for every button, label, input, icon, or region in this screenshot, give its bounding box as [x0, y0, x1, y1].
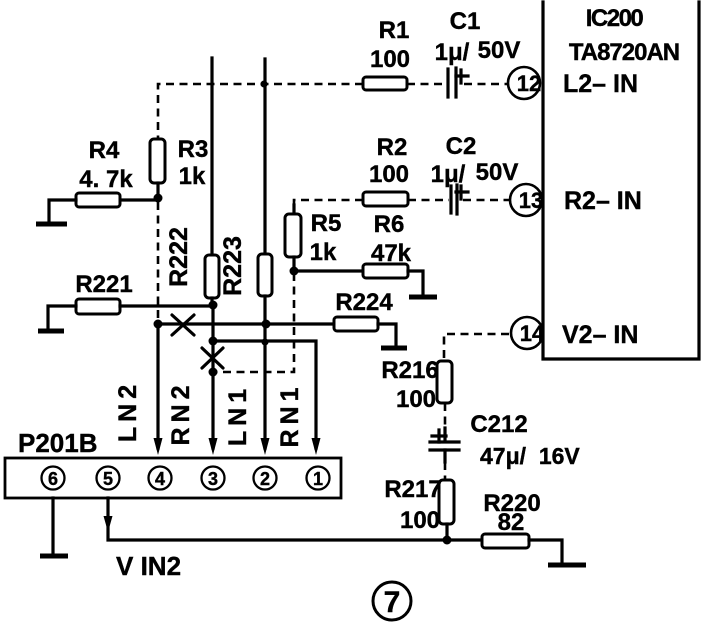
svg-text:4: 4 — [155, 469, 165, 489]
node LN1 crossing — [262, 320, 271, 329]
svg-text:100: 100 — [396, 386, 436, 413]
resistor R222 — [205, 255, 219, 298]
svg-text:1μ/: 1μ/ — [431, 161, 466, 188]
svg-text:1: 1 — [313, 469, 323, 489]
svg-text:R221: R221 — [75, 271, 132, 298]
jumper X1 — [172, 315, 194, 335]
pin 4 — [149, 467, 172, 490]
node dashed branch — [209, 368, 218, 377]
node RN1 branch — [209, 337, 218, 346]
svg-text:R2– IN: R2– IN — [564, 187, 642, 215]
pin 1 — [307, 467, 330, 490]
wire dashed from R3 top to R1 left — [158, 84, 363, 139]
arrow pin4 — [154, 438, 163, 455]
svg-text:LN2: LN2 — [114, 380, 142, 442]
svg-text:14: 14 — [520, 321, 545, 346]
svg-text:L2– IN: L2– IN — [563, 70, 638, 98]
wire R3 bottom — [156, 183, 159, 199]
wire dashed junction down — [157, 202, 160, 322]
svg-text:V IN2: V IN2 — [116, 551, 181, 581]
wire R224 to ground — [378, 324, 396, 346]
IC IC200 TA8720AN box — [543, 2, 699, 359]
svg-text:LN1: LN1 — [224, 384, 252, 446]
svg-text:R3: R3 — [178, 136, 209, 163]
svg-text:V2– IN: V2– IN — [562, 321, 638, 349]
svg-text:47k: 47k — [371, 240, 412, 267]
wire RN2 vertical down to pin3 — [211, 305, 214, 448]
wire LN1 down to pin2 — [263, 296, 266, 448]
svg-text:100: 100 — [400, 507, 440, 534]
pin 5 — [97, 467, 120, 490]
ground R6 — [409, 295, 437, 300]
svg-text:R223: R223 — [219, 236, 247, 296]
resistor R3 — [150, 139, 165, 183]
wire junction to R6 — [294, 269, 363, 272]
pin 2 — [254, 467, 277, 490]
svg-text:R4: R4 — [89, 137, 120, 164]
svg-text:100: 100 — [370, 46, 410, 73]
resistor R224 — [334, 317, 378, 331]
svg-text:IC200: IC200 — [586, 5, 644, 32]
capacitor C212 — [430, 430, 459, 450]
svg-text:1k: 1k — [310, 239, 337, 266]
svg-text:1k: 1k — [179, 163, 206, 190]
wire R220 to ground — [529, 540, 562, 563]
node crossing small — [262, 339, 269, 346]
wire dashed pin14 to R216 — [444, 334, 509, 360]
wire pin5 V IN2 — [108, 498, 448, 540]
wire dashed R2 left to R5 top — [294, 200, 363, 207]
ground R220 — [548, 563, 586, 568]
svg-text:RN2: RN2 — [167, 380, 195, 445]
wire junction to R220 — [447, 538, 482, 541]
svg-text:1μ/: 1μ/ — [435, 39, 470, 66]
svg-text:R1: R1 — [379, 17, 410, 44]
arrow pin3 — [209, 438, 218, 455]
ground pin6 — [40, 554, 68, 559]
wire dashed R1 to C1 — [407, 83, 448, 86]
connector P201B box — [5, 458, 341, 498]
svg-text:R2: R2 — [377, 134, 408, 161]
svg-text:P201B: P201B — [18, 428, 98, 458]
node R222/R221 junction — [209, 301, 218, 310]
svg-text:13: 13 — [519, 188, 543, 213]
wire vertical LN1 upper — [210, 58, 213, 255]
wire LN2 down to pin4 — [156, 324, 159, 448]
node R5/R6 junction — [290, 267, 299, 276]
resistor R4 — [76, 193, 120, 207]
resistor R5 — [285, 214, 301, 257]
svg-text:R217: R217 — [384, 476, 441, 503]
wire branch to R224 — [158, 322, 334, 325]
wire R4 left to ground — [49, 200, 76, 222]
svg-text:50V: 50V — [476, 159, 519, 186]
wire pin6 to ground — [51, 498, 54, 553]
wire dashed C2 to pin13 — [463, 199, 510, 202]
wire R221 left to ground — [48, 306, 76, 329]
resistor R223 — [258, 254, 272, 296]
resistor R216 — [437, 361, 452, 403]
wire R6 to ground — [408, 271, 423, 295]
wire RN1 branch to pin1 — [213, 341, 316, 448]
resistor R2 — [363, 192, 408, 206]
capacitor C1 — [448, 68, 468, 97]
svg-text:47μ/ 16V: 47μ/ 16V — [480, 443, 580, 469]
jumper X2 — [202, 348, 223, 368]
wire dashed C1 to pin12 — [464, 83, 508, 86]
svg-text:TA8720AN: TA8720AN — [569, 39, 679, 66]
wire C212 to R217 — [443, 450, 446, 462]
node R217/VIN2 junction — [443, 536, 452, 545]
svg-text:5: 5 — [103, 469, 113, 489]
pin 12 — [508, 67, 541, 99]
wire R5 bottom to junction — [292, 257, 295, 271]
svg-text:R5: R5 — [311, 210, 342, 237]
wire R4 to junction — [120, 198, 158, 201]
svg-text:C2: C2 — [446, 133, 477, 160]
resistor R220 — [482, 534, 529, 548]
svg-text:R224: R224 — [335, 289, 393, 316]
svg-text:50V: 50V — [478, 37, 521, 64]
resistor R1 — [363, 77, 407, 90]
wire dashed R2 to C2 — [408, 199, 449, 202]
wire R217 bottom — [445, 524, 448, 541]
svg-text:4. 7k: 4. 7k — [79, 166, 133, 193]
svg-text:100: 100 — [369, 161, 409, 188]
pin 3 — [202, 467, 225, 490]
capacitor C2 — [451, 185, 468, 214]
node R3/R4 junction — [154, 194, 163, 203]
node LN2 branch — [154, 320, 163, 329]
wire R221 to RN2 node — [120, 304, 214, 307]
svg-text:RN1: RN1 — [276, 382, 304, 447]
arrow pin2 — [261, 438, 270, 455]
pin 13 — [510, 184, 543, 216]
resistor R6 — [363, 264, 408, 278]
resistor R221 — [76, 299, 120, 314]
wire dashed junction down and left to RN2 node — [215, 273, 294, 372]
pin 6 — [42, 467, 65, 490]
svg-text:3: 3 — [208, 469, 218, 489]
pin 14 — [511, 317, 545, 349]
wire dashed R216 to C212 — [444, 403, 447, 428]
svg-text:82: 82 — [498, 509, 525, 536]
resistor R217 — [439, 480, 454, 524]
ground R221 — [38, 329, 64, 334]
svg-text:C1: C1 — [450, 8, 481, 35]
node dot on dashed at x265 — [261, 81, 268, 88]
svg-text:2: 2 — [260, 469, 270, 489]
svg-text:6: 6 — [48, 469, 58, 489]
arrow pin5 — [104, 516, 113, 532]
svg-text:R216: R216 — [381, 357, 438, 384]
svg-text:C212: C212 — [470, 411, 527, 438]
svg-text:7: 7 — [384, 586, 401, 619]
ground R4 — [36, 222, 67, 227]
svg-text:R6: R6 — [374, 211, 405, 238]
page number 7 — [373, 582, 411, 620]
wire vertical RN2 upper — [263, 59, 266, 254]
ground R224 — [381, 346, 407, 351]
wire R222 bottom — [210, 298, 213, 306]
svg-text:R222: R222 — [165, 227, 193, 287]
svg-text:12: 12 — [517, 71, 541, 96]
arrow pin1 — [312, 438, 321, 455]
